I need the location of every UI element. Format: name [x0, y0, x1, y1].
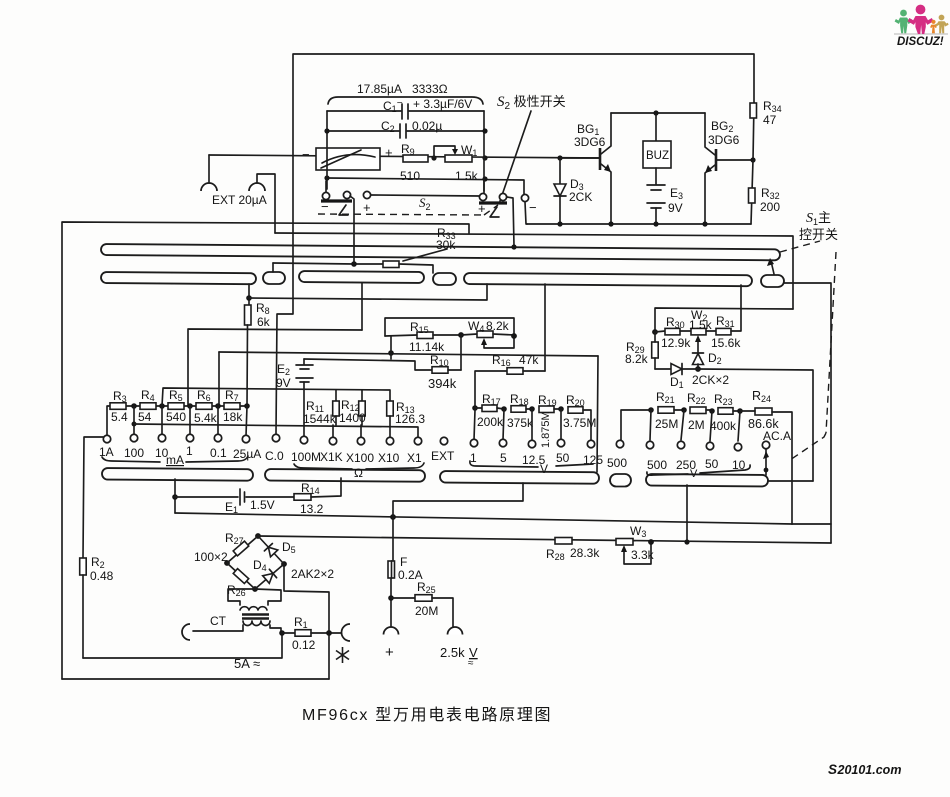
svg-text:1.5V: 1.5V: [250, 498, 275, 512]
terminal 10: [158, 434, 165, 441]
resistor R26 bottom-left arm: [227, 563, 255, 589]
resistor R1: [282, 615, 344, 652]
node R5/R6: [187, 403, 193, 409]
resistor R5: [166, 388, 186, 424]
resistor R12: [339, 390, 366, 425]
terminal AC250: [677, 441, 684, 448]
svg-text:1.5k: 1.5k: [455, 169, 479, 183]
switch contact row2b oval: [263, 272, 285, 284]
node R21 left: [648, 407, 654, 413]
node BG2 base / R34: [750, 157, 755, 162]
terminal plus: [384, 627, 399, 661]
terminal V5: [499, 439, 506, 446]
node R6/R7: [215, 403, 221, 409]
node F top: [390, 514, 396, 520]
svg-text:1.5k: 1.5k: [689, 318, 713, 332]
resistor R4: [138, 388, 156, 424]
svg-text:+: +: [363, 200, 371, 215]
svg-text:100×2: 100×2: [194, 550, 228, 564]
terminal EXT 20uA left: [201, 155, 217, 191]
terminal 100: [130, 434, 137, 441]
switch S2 left contact c2: [343, 191, 350, 198]
svg-text:200: 200: [760, 200, 780, 214]
switch S2 right contact c4: [479, 193, 486, 200]
terminal X1: [414, 437, 421, 444]
svg-text:mA: mA: [166, 453, 184, 467]
resistor R16: [475, 353, 545, 408]
svg-text:5: 5: [500, 451, 507, 465]
wire: row2e drop to R16 right: [544, 284, 546, 371]
wire: bus388: [162, 388, 390, 406]
svg-text:F: F: [400, 555, 407, 569]
resistor R28: [546, 538, 600, 563]
svg-text:−: −: [302, 147, 310, 162]
label V bracket DC: [470, 461, 593, 476]
node bridge top: [255, 533, 261, 539]
node R19/R20: [558, 406, 564, 412]
svg-text:500: 500: [647, 458, 667, 472]
node on rail x485: [482, 155, 487, 160]
wire c2 drop: [350, 196, 354, 263]
capacitor C2: [327, 119, 485, 138]
wire R15 left drop: [390, 336, 392, 359]
S20101.com logo: [828, 762, 901, 777]
svg-text:47: 47: [763, 113, 777, 127]
S1 wiper arrow: [767, 258, 774, 274]
wire: row2c drop to bus329: [361, 283, 363, 330]
switch S2 left contact c1: [322, 192, 329, 199]
terminal AC50: [706, 442, 713, 449]
svg-text:510: 510: [400, 169, 420, 183]
terminal X100: [357, 437, 364, 444]
SECTION: middle networks: [107, 285, 813, 524]
svg-text:2AK2×2: 2AK2×2: [291, 567, 334, 581]
resistor R7: [223, 388, 243, 424]
svg-text:CT: CT: [210, 614, 227, 628]
wire: AC line to lower frame: [698, 369, 813, 481]
svg-text:≈: ≈: [253, 656, 260, 671]
svg-text:控开关: 控开关: [799, 227, 838, 242]
resistor R33: [273, 226, 456, 273]
wire: R2 return loop: [83, 634, 282, 658]
taps AC terminals: [650, 410, 651, 440]
wire: left border common drop to C.0: [276, 263, 293, 434]
svg-text:−: −: [529, 200, 537, 215]
diode D2: [693, 351, 722, 369]
wire: meter rail: [209, 155, 599, 158]
resistor R10: [428, 335, 461, 391]
terminal star: [336, 624, 350, 663]
svg-text:1: 1: [470, 451, 477, 465]
svg-text:500: 500: [607, 456, 627, 470]
node bridge left: [224, 560, 230, 566]
svg-text:400k: 400k: [710, 419, 737, 433]
svg-text:0.02µ: 0.02µ: [412, 119, 442, 133]
SECTION: transistor block: [527, 99, 838, 242]
diode D5 top-right arm: [258, 536, 284, 564]
resistor R24: [740, 389, 792, 524]
resistor R30: [655, 315, 691, 350]
wire: bus353 drop to row3c: [597, 356, 598, 472]
wire: bottom rail of meter loop: [327, 178, 524, 194]
terminal 5A: [182, 624, 260, 671]
svg-text:18k: 18k: [223, 410, 243, 424]
svg-text:54: 54: [138, 410, 152, 424]
SECTION: terminals row: [99, 429, 791, 480]
wire: AC.A wiper drop: [763, 449, 769, 475]
AC multiplier chain R21-R24: [621, 410, 651, 440]
terminal AC.A: [762, 441, 769, 448]
wire: bus512 long: [175, 513, 792, 524]
resistor R18: [507, 392, 534, 430]
svg-text:20101.com: 20101.com: [837, 763, 902, 777]
potentiometer W2: [689, 308, 716, 352]
battery E1: [175, 489, 294, 515]
resistor R32: [749, 160, 781, 224]
switch contact row3d oval: [610, 474, 631, 487]
node R15/W4/R10: [458, 332, 464, 338]
wire: row3e common drop to W3 line: [686, 485, 688, 542]
SECTION: logos and caption: [302, 5, 949, 777]
bridge rectifier: [194, 531, 334, 598]
wire: row2a drop: [248, 284, 250, 305]
resistor R29: [625, 332, 658, 369]
node bridge bottom: [252, 586, 258, 592]
terminal V125: [587, 440, 594, 447]
svg-text:100M: 100M: [291, 450, 321, 464]
tan figure: [935, 15, 949, 34]
svg-text:2CK×2: 2CK×2: [692, 373, 729, 387]
svg-text:5.4: 5.4: [111, 410, 128, 424]
fuse F: [388, 555, 423, 627]
svg-text:8.2k: 8.2k: [486, 319, 510, 333]
resistor R25: [391, 580, 453, 627]
taps from bus424 to ohm terminals: [332, 425, 334, 437]
terminal V500dc: [616, 440, 623, 447]
svg-text:50: 50: [556, 451, 570, 465]
wire: bus424: [134, 424, 418, 437]
svg-text:540: 540: [166, 410, 186, 424]
wire: C1/C2 left vertical: [326, 111, 328, 189]
wire c6 drop: [525, 202, 527, 224]
wire: row3a drop: [174, 479, 176, 513]
wiper mark left: [339, 205, 348, 215]
svg-text:6k: 6k: [257, 315, 271, 329]
meter movement M: [302, 145, 393, 170]
battery E2: [276, 359, 313, 436]
svg-text:C.0: C.0: [265, 449, 284, 463]
svg-text:+: +: [478, 201, 486, 216]
node bus353/R15: [388, 350, 394, 356]
switch S2 right contact c5: [499, 193, 506, 200]
terminal 2.5kV: [440, 627, 478, 669]
SECTION: top meter block: [201, 54, 754, 263]
label V bracket AC: [647, 465, 750, 480]
switch S2 right contact c6: [521, 194, 528, 201]
node D1/D2: [695, 366, 701, 372]
node E1: [172, 494, 178, 500]
wire: outer COM bus top: [62, 222, 469, 679]
svg-text:X1: X1: [407, 451, 422, 465]
S2 right bar: [479, 201, 507, 204]
svg-text:X10: X10: [378, 451, 400, 465]
battery E3: [647, 168, 683, 225]
svg-text:1400: 1400: [339, 411, 366, 425]
resistor R9: [400, 142, 428, 183]
resistor R15: [385, 320, 461, 354]
node R8 top: [246, 295, 252, 301]
svg-text:3.75M: 3.75M: [563, 416, 596, 430]
svg-text:MF96cx 型万用电表电路原理图: MF96cx 型万用电表电路原理图: [302, 706, 552, 724]
terminal X1K: [329, 437, 336, 444]
svg-text:11.14k: 11.14k: [409, 340, 445, 354]
switch deck row2e bar: [464, 273, 752, 286]
node bridge right: [281, 561, 287, 567]
terminal 0.1: [214, 434, 221, 441]
svg-text:0.12: 0.12: [292, 638, 316, 652]
svg-text:100: 100: [124, 446, 144, 460]
switch deck row2c bar: [299, 271, 424, 283]
wire: row3e cap to lower frame: [768, 480, 813, 482]
label mA with bracket: [102, 453, 248, 467]
magenta figure: [908, 5, 934, 34]
svg-text:15.6k: 15.6k: [711, 336, 741, 350]
wire: C1/C2 right vertical: [483, 111, 485, 191]
W2 block frame: [655, 308, 793, 332]
svg-text:9V: 9V: [276, 376, 291, 390]
resistor R23: [710, 392, 740, 433]
svg-text:17.85µA 3333Ω: 17.85µA 3333Ω: [357, 82, 448, 96]
svg-text:2.5k: 2.5k: [440, 645, 465, 660]
resistor R13: [387, 400, 426, 437]
switch deck row3e bar: [646, 474, 768, 486]
svg-text:394k: 394k: [428, 376, 457, 391]
svg-text:≈: ≈: [468, 658, 474, 669]
node S2 wiper on row1: [511, 244, 516, 249]
svg-text:V: V: [540, 462, 548, 476]
V divider chain R17-R20: [472, 405, 478, 411]
svg-text:0.48: 0.48: [90, 569, 114, 583]
svg-text:+: +: [385, 145, 393, 160]
terminal X10: [386, 437, 393, 444]
wiper mark right: [490, 207, 499, 217]
wire: bridge right to R1 node: [284, 564, 329, 679]
tap wires to mA terminals: [133, 406, 135, 435]
node R33 left: [351, 261, 357, 267]
svg-text:2M: 2M: [688, 418, 705, 432]
resistor R8: [245, 301, 271, 406]
wire: emitter bottom rail: [527, 223, 751, 225]
wire: bus329 to 1mA tap: [188, 329, 362, 406]
wire: bridge top to W3 line: [258, 536, 831, 543]
buzzer BUZ: [643, 113, 671, 168]
resistor R11: [303, 390, 339, 426]
wire: bus233 EXT2 to right frame: [275, 233, 793, 309]
svg-text:AC.A: AC.A: [763, 429, 791, 443]
svg-text:V: V: [690, 468, 698, 480]
switch deck row3a bar: [102, 468, 253, 481]
wire: W3 line right end up to S1 wiper feed: [784, 283, 831, 543]
node R18/R19: [529, 406, 535, 412]
node R17/R18: [501, 406, 507, 412]
svg-text:−: −: [321, 199, 329, 214]
svg-text:5.4k: 5.4k: [194, 411, 218, 425]
wire: top frame edge: [293, 54, 754, 263]
switch deck row1 bar: [101, 244, 780, 260]
terminal C.0: [272, 434, 279, 441]
svg-text:+ 3.3µF/6V: + 3.3µF/6V: [413, 97, 472, 111]
transistor BG2: [705, 113, 752, 225]
svg-text:50: 50: [705, 457, 719, 471]
node on rail x434: [431, 155, 436, 160]
switch deck row2a bar: [101, 272, 256, 284]
wire: bus298 row2a to row2e: [249, 284, 487, 300]
node 100mA bus424: [132, 422, 137, 427]
resistor R27 top-left arm: [227, 536, 258, 563]
svg-text:47k: 47k: [519, 353, 539, 367]
svg-text:375k: 375k: [507, 416, 534, 430]
wire: E2 top to R10: [304, 359, 432, 370]
svg-text:3DG6: 3DG6: [574, 135, 606, 149]
node on rail x327: [324, 154, 329, 159]
resistor R2: [80, 437, 114, 658]
node R23/R24: [737, 408, 743, 414]
wire: bus353: [218, 352, 220, 406]
node R3/R4: [131, 403, 137, 409]
svg-text:S: S: [828, 762, 837, 777]
svg-text:1544k: 1544k: [303, 412, 337, 426]
svg-text:BUZ: BUZ: [646, 150, 669, 162]
svg-text:X100: X100: [346, 451, 374, 465]
svg-text:DISCUZ!: DISCUZ!: [897, 36, 944, 48]
switch deck row3b bar: [265, 469, 425, 482]
wire c3 to c4: [371, 195, 479, 196]
terminal 25uA: [242, 435, 249, 442]
switch deck row3c bar: [440, 471, 599, 484]
resistor R17: [475, 392, 504, 429]
node R1 right / star: [326, 630, 332, 636]
S2 left bar: [321, 199, 352, 202]
terminal 100M: [300, 436, 307, 443]
orange small figure: [930, 20, 937, 34]
label ohm bracket: [294, 463, 424, 480]
svg-text:2CK: 2CK: [569, 190, 592, 204]
resistor R20: [563, 393, 596, 441]
svg-text:200k: 200k: [477, 415, 504, 429]
resistor R31: [711, 285, 741, 350]
svg-text:8.2k: 8.2k: [625, 352, 649, 366]
diode D3: [554, 158, 592, 224]
svg-text:13.2: 13.2: [300, 502, 324, 516]
node R21/R22: [681, 407, 687, 413]
node R29/R30: [652, 329, 658, 335]
svg-text:9V: 9V: [668, 201, 683, 215]
SECTION: bottom: [62, 283, 831, 679]
resistor R34: [750, 99, 782, 160]
brace under label: [328, 97, 483, 104]
node R22/R23: [709, 408, 715, 414]
terminal EXT 20uA right: [249, 174, 275, 233]
wire c4 feed: [483, 180, 485, 193]
wire: outer bottom return: [62, 678, 329, 680]
terminal V50: [557, 439, 564, 446]
transformer CT: [193, 589, 281, 633]
wire: collector top rail: [611, 112, 705, 114]
svg-text:1.875M: 1.875M: [540, 411, 552, 448]
svg-text:S1主: S1主: [806, 210, 831, 227]
resistor R3: [110, 389, 128, 424]
potentiometer W1: [434, 143, 479, 183]
switch S2 left contact c3: [363, 191, 370, 198]
svg-text:25µA: 25µA: [233, 447, 261, 461]
svg-text:126.3: 126.3: [395, 412, 425, 426]
svg-text:0.1: 0.1: [210, 446, 227, 460]
terminal V1: [470, 439, 477, 446]
terminal EXT: [440, 437, 447, 444]
svg-text:3.3k: 3.3k: [631, 548, 655, 562]
potentiometer W3: [616, 524, 655, 564]
diode D1 on AC line: [655, 364, 729, 391]
svg-text:12.9k: 12.9k: [661, 336, 691, 350]
shunt chain R3-R7 wire: [107, 406, 113, 435]
node R1 left: [279, 630, 285, 636]
wire: R24 bottom link: [792, 523, 831, 525]
svg-text:EXT 20µA: EXT 20µA: [212, 193, 267, 207]
node R7 right: [244, 403, 250, 409]
svg-text:20M: 20M: [415, 604, 438, 618]
Discuz logo figures: [894, 5, 949, 48]
wire c5 drop to deck: [507, 197, 514, 246]
resistor R21: [655, 390, 684, 431]
node on rail x560: [557, 155, 562, 160]
svg-text:+: +: [385, 644, 394, 661]
resistor R6: [194, 388, 218, 425]
svg-text:EXT: EXT: [431, 449, 455, 463]
node R4/R5: [159, 403, 165, 409]
terminal V12.5: [528, 440, 535, 447]
resistor R19: [538, 393, 561, 448]
node W3 right: [648, 539, 654, 545]
switch contact row2d oval: [433, 273, 456, 285]
node F/R25: [388, 595, 394, 601]
dashed S1 linkage: [780, 241, 836, 460]
wire c1 feed: [325, 181, 327, 192]
leader line from S2 label: [500, 111, 531, 201]
svg-text:28.3k: 28.3k: [570, 546, 600, 560]
potentiometer W4 frame top: [385, 318, 514, 336]
svg-text:X1K: X1K: [320, 450, 343, 464]
diode D4 bottom-right arm: [255, 564, 284, 589]
resistor R22: [687, 391, 712, 432]
wire: row3c to F: [393, 483, 523, 561]
svg-text:5A: 5A: [234, 656, 250, 671]
taps V terminals: [474, 410, 475, 440]
capacitor C1: [327, 97, 484, 119]
terminal 1: [186, 434, 193, 441]
green figure: [895, 10, 913, 34]
svg-text:3DG6: 3DG6: [708, 133, 740, 147]
switch wiper S1 oval row2: [761, 275, 784, 287]
transistor BG1: [560, 113, 611, 224]
svg-text:1: 1: [186, 444, 193, 458]
terminal AC500: [646, 441, 653, 448]
node W4 right: [511, 333, 517, 339]
svg-text:Ω: Ω: [354, 466, 363, 480]
dashed S2 outline: [318, 205, 498, 215]
terminal 1A: [103, 435, 110, 442]
resistor R14: [294, 478, 341, 516]
svg-text:25M: 25M: [655, 417, 678, 431]
